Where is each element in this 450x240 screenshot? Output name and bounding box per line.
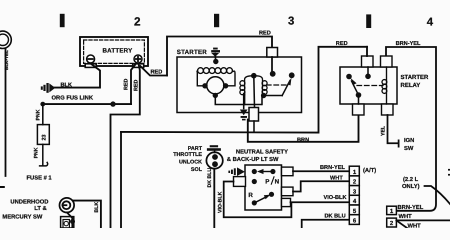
label NEUTRAL SAFETY & BACK-UP LT SW: [227, 149, 288, 163]
wire ground into field coil: [215, 57, 217, 62]
label YEL (rotated): [381, 125, 387, 136]
wire battery negative to ground: [54, 64, 100, 88]
svg-text:RED: RED: [336, 41, 348, 47]
wire terminal down to bus: [253, 121, 255, 132]
label BRN: [297, 137, 309, 143]
svg-text:2: 2: [134, 15, 141, 29]
label PART THROTTLE UNLOCK SOL: [173, 146, 202, 173]
label ORG FUS LINK: [52, 95, 94, 102]
svg-text:VIO-BLK: VIO-BLK: [324, 195, 347, 201]
svg-text:WHT: WHT: [399, 214, 413, 220]
wire solenoid ground branch: [243, 94, 245, 109]
svg-text:BLK: BLK: [61, 82, 73, 88]
column number 4: [427, 16, 434, 28]
relay linkage dashed: [357, 85, 383, 87]
svg-text:NEUTRAL SAFETY: NEUTRAL SAFETY: [236, 149, 288, 156]
label WHT: [330, 175, 343, 181]
solenoid pull-in coil L2: [240, 76, 254, 95]
wire BRN-YEL from right: [386, 47, 436, 211]
svg-text:MERCURY SW: MERCURY SW: [2, 213, 42, 220]
starter field coil L1: [197, 68, 235, 86]
svg-text:R: R: [248, 192, 253, 199]
wire solenoid ground leg: [244, 95, 246, 105]
label RED top: [259, 31, 271, 37]
wire ORG FUS LINK horizontal: [43, 103, 131, 105]
svg-text:THROTTLE: THROTTLE: [173, 152, 202, 158]
left edge stub: [0, 186, 4, 188]
label VIO-BLK (rotated): [218, 191, 224, 213]
junction dot field coil top: [213, 59, 218, 64]
svg-text:VIO-BLK: VIO-BLK: [218, 191, 224, 213]
label R: [248, 192, 253, 199]
label PNK upper (rotated): [36, 109, 42, 120]
svg-text:RELAY: RELAY: [401, 82, 421, 89]
svg-text:(2.2 L: (2.2 L: [403, 176, 419, 183]
switch arrow P/N: [257, 169, 273, 174]
svg-text:ONLY): ONLY): [402, 183, 420, 190]
wire fuse feed: [42, 104, 44, 125]
brush dot left: [202, 83, 207, 88]
relay terminal top-left: [362, 56, 374, 67]
connector J2 pin 2: [387, 218, 397, 227]
ground G2 starter case (top): [211, 48, 220, 57]
label PNK lower (rotated): [34, 147, 40, 158]
relay terminal bottom-right: [382, 104, 394, 115]
label RED at relay: [336, 41, 348, 47]
wire VIO-BLK from left terminal: [224, 182, 292, 218]
wire WHT to connector pin 2: [293, 181, 349, 191]
svg-text:STARTER: STARTER: [177, 49, 207, 56]
wire fuse bottom with clip: [40, 144, 48, 166]
label BRN-YEL top: [396, 41, 421, 47]
relay input contact dot: [365, 67, 371, 79]
wire connector to contact: [271, 57, 273, 72]
wire WHT diagonal from J2 pin 2: [396, 220, 407, 228]
starter terminal T1: [249, 108, 259, 122]
svg-text:BATTERY: BATTERY: [103, 47, 134, 54]
svg-text:RED: RED: [151, 69, 163, 75]
ground G3 starter solenoid: [240, 110, 248, 121]
label DK BLU: [325, 213, 346, 219]
column ruler tick 2: [214, 14, 219, 27]
part throttle unlock solenoid Y1: [206, 145, 222, 169]
switch terminal right middle: [282, 187, 294, 196]
svg-text:IGN: IGN: [404, 137, 414, 144]
battery positive terminal: [133, 55, 144, 67]
junction dot mercury switch: [70, 219, 75, 224]
wire main bus to relay RED: [121, 47, 367, 133]
connector C2 inline: [267, 48, 278, 58]
wire WHT from J2 pin 2: [396, 219, 450, 221]
ground G1 (chassis, battery negative): [41, 83, 55, 93]
wire YEL to ignition switch: [388, 115, 399, 147]
brush dot right: [223, 83, 228, 88]
label FUSE # 1: [27, 174, 53, 181]
junction dot on fusible link: [110, 101, 115, 106]
wire BRN-YEL to connector pin 1: [293, 170, 349, 172]
switch contact dot P/N left: [252, 169, 257, 174]
label (2.2 L ONLY): [402, 176, 420, 190]
fuse F1 body value 23: [37, 125, 49, 145]
svg-text:3: 3: [288, 16, 294, 28]
solenoid switch fixed contact dot: [270, 71, 276, 77]
starter box U1: [177, 57, 302, 113]
label WHT lower at J2: [408, 224, 422, 230]
relay terminal bottom-left: [353, 104, 365, 115]
switch contact dot P/N right: [270, 169, 275, 174]
column ruler tick 1: [60, 14, 65, 27]
svg-text:PNK: PNK: [34, 147, 40, 158]
svg-text:STARTER: STARTER: [401, 74, 430, 81]
connector grommet C1 top-left: [0, 31, 11, 48]
solenoid switch lever with arrow: [282, 78, 291, 96]
label P/N: [265, 177, 279, 186]
wire DK BLU to connector pin 6: [302, 220, 349, 228]
label BRN-YEL: [320, 165, 345, 171]
connector J1 pin numbers: [353, 169, 357, 225]
svg-text:ORG FUS LINK: ORG FUS LINK: [52, 95, 94, 102]
svg-text:N: N: [275, 178, 280, 185]
svg-text:FUSE # 1: FUSE # 1: [27, 174, 53, 181]
neutral safety switch S1 box: [245, 165, 282, 210]
wire BLK-YEL label (rotated): [4, 50, 9, 70]
label BLK: [61, 82, 73, 88]
svg-text:4: 4: [427, 16, 434, 28]
solenoid switch open contact dot: [289, 72, 295, 78]
svg-text:(A/T): (A/T): [363, 167, 376, 174]
wire DK BLU solenoid down: [213, 169, 215, 228]
switch terminal right top: [282, 167, 294, 176]
battery B1: [80, 37, 148, 66]
svg-text:YEL: YEL: [381, 125, 387, 136]
wire lamp bottom to mercury switch junction: [67, 213, 72, 229]
solenoid linkage dashed: [267, 84, 290, 86]
label IGN SW: [404, 137, 414, 152]
wire RED battery positive lead: [140, 66, 167, 76]
connector J1 pin boxes 1-6: [349, 166, 359, 224]
label VIO-BLK: [324, 195, 347, 201]
label (A/T): [363, 167, 376, 174]
right edge cut text marks: [448, 169, 450, 176]
column number 3: [288, 16, 294, 28]
svg-text:WHT: WHT: [408, 224, 422, 229]
wire RED battery positive down-left branch: [131, 64, 136, 105]
relay armature lever with arrow: [350, 78, 361, 105]
svg-text:BRN-YEL: BRN-YEL: [398, 205, 424, 211]
column ruler tick 3: [366, 14, 371, 28]
svg-text:23: 23: [42, 135, 48, 141]
wire RED feed from top into switch: [167, 37, 272, 76]
wire BRN: [248, 115, 359, 142]
relay terminal top-right: [381, 56, 393, 67]
ground G4 switch case (left): [228, 167, 245, 176]
starter motor M1: [207, 77, 224, 94]
label BRN-YEL at J2: [398, 205, 424, 211]
svg-text:P: P: [265, 178, 269, 185]
underhood lamp E1: [60, 198, 75, 213]
brush dot bottom: [213, 93, 218, 98]
label BLK (rotated): [94, 202, 100, 213]
svg-text:BLK: BLK: [94, 202, 100, 213]
column number 2: [134, 15, 141, 29]
svg-text:PNK: PNK: [36, 109, 42, 120]
relay wire RED drop: [366, 47, 368, 56]
solenoid hold-in coil L3: [254, 76, 267, 95]
label STARTER RELAY: [401, 74, 430, 89]
wire lamp to BLK vertical: [74, 201, 101, 228]
label RED (rotated) left: [124, 79, 130, 90]
junction dot solenoid top: [251, 73, 257, 79]
svg-text:& BACK-UP LT SW: & BACK-UP LT SW: [227, 156, 279, 163]
mercury switch SW1: [61, 217, 74, 228]
junction dot at fuse top: [40, 102, 45, 107]
relay coil L4: [382, 67, 387, 104]
svg-text:SW: SW: [404, 145, 414, 152]
starter relay K1 box: [340, 67, 397, 104]
svg-text:RED: RED: [134, 80, 140, 91]
switch terminal right bottom: [282, 198, 291, 206]
svg-text:PART: PART: [188, 146, 203, 152]
switch lever R with arrow: [252, 192, 274, 206]
svg-text:DK BLU: DK BLU: [325, 213, 346, 219]
label UNDERHOOD LT & MERCURY SW: [2, 198, 48, 220]
wire left frame vertical: [5, 49, 7, 176]
wire RED battery positive second down branch: [111, 64, 140, 229]
label RED (rotated) right: [134, 80, 140, 91]
svg-text:RED: RED: [124, 79, 130, 90]
svg-text:DK BLU: DK BLU: [207, 168, 213, 188]
wire motor bottom bus: [215, 95, 260, 104]
svg-text:LT &: LT &: [34, 205, 46, 212]
label RED near battery: [151, 69, 163, 75]
relay fixed contact dot: [346, 74, 352, 80]
wire battery feed down to underhood area: [120, 132, 122, 228]
connector J2 pin 1: [387, 206, 397, 215]
label STARTER: [177, 49, 207, 56]
svg-text:WHT: WHT: [330, 175, 343, 181]
junction dot solenoid coil bottom: [261, 93, 266, 98]
label DK BLU (rotated): [207, 168, 213, 188]
svg-text:RED: RED: [259, 31, 271, 37]
wire 2.2L branch curve: [425, 186, 450, 204]
switch contact dot feed: [252, 179, 257, 184]
battery negative terminal: [85, 55, 96, 67]
switch terminal left: [234, 177, 246, 187]
svg-text:SOL: SOL: [191, 167, 203, 173]
svg-text:BRN-YEL: BRN-YEL: [320, 165, 345, 171]
svg-text:UNDERHOOD: UNDERHOOD: [10, 198, 48, 205]
wire solenoid plunger center: [253, 76, 256, 108]
wire coil bottom to switch: [262, 96, 282, 105]
wire VIO-BLK to connector pin 4: [291, 201, 350, 203]
label WHT at J2: [399, 214, 413, 220]
svg-text:UNLOCK: UNLOCK: [179, 160, 202, 166]
